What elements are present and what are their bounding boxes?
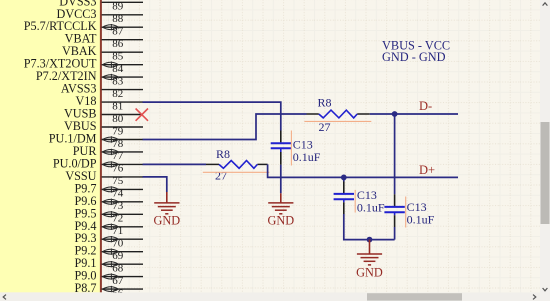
pin 85 VBAK xyxy=(62,44,143,62)
pin 73 P9.6 xyxy=(74,194,143,212)
pin 69 P9.2 xyxy=(74,244,143,262)
pin 77 PUR xyxy=(73,144,143,162)
pin 74 P9.7 xyxy=(74,181,143,199)
label C13 (left) xyxy=(293,137,321,164)
svg-text:D+: D+ xyxy=(419,163,435,177)
svg-text:86: 86 xyxy=(112,38,124,50)
svg-text:79: 79 xyxy=(112,125,124,137)
pin 83 P7.2/XT2IN xyxy=(36,69,143,87)
svg-text:88: 88 xyxy=(112,13,124,25)
svg-text:R8: R8 xyxy=(318,95,332,109)
no-ERC marker X on pin 80 VUSB xyxy=(136,109,148,121)
svg-text:GND: GND xyxy=(153,214,180,228)
svg-text:D-: D- xyxy=(419,99,432,113)
svg-text:27: 27 xyxy=(215,169,227,183)
junction node D+ xyxy=(341,175,347,181)
pin 72 P9.5 xyxy=(74,206,143,224)
svg-text:80: 80 xyxy=(112,113,124,125)
pin 70 P9.3 xyxy=(74,231,143,249)
capacitor C13 (left) plates xyxy=(271,143,291,152)
pin 76 PU.0/DP xyxy=(53,156,143,174)
pin 84 P7.3/XT2OUT xyxy=(24,57,143,75)
autoposition mark under R8 bottom xyxy=(203,171,270,173)
ground power port (VSSU) stub xyxy=(166,192,168,203)
junction node D- xyxy=(392,111,398,117)
junction node GND rail xyxy=(367,237,373,243)
IC U1 body (yellow block, right edge) xyxy=(0,0,101,292)
pin 68 P9.1 xyxy=(74,256,143,274)
vertical scrollbar xyxy=(540,0,550,301)
pin 75 VSSU xyxy=(65,169,143,187)
ground symbol GND (left) xyxy=(153,203,180,228)
svg-text:81: 81 xyxy=(112,100,123,112)
autoposition mark under R8 top xyxy=(304,120,371,122)
wire D+ junction down to C13 middle xyxy=(343,177,345,181)
pin 86 VBAT xyxy=(65,32,143,50)
pin 79 VBUS xyxy=(64,119,143,137)
net label D+ xyxy=(419,163,435,177)
pin 71 P9.4 xyxy=(74,219,143,237)
wire R8 bottom jog down to D+ row xyxy=(268,164,458,177)
wire C13 middle bottom to GND rail xyxy=(344,214,395,240)
svg-text:R8: R8 xyxy=(216,147,230,161)
pin 81 V18 xyxy=(76,94,144,112)
pin 89 DVSS3 xyxy=(59,0,143,13)
label C13 (middle) xyxy=(357,188,385,215)
capacitor C13 (right) pin 2 lead xyxy=(394,215,396,227)
horizontal scrollbar xyxy=(0,292,540,301)
resistor R8 (top, D- series) lead pins xyxy=(307,113,370,115)
svg-text:GND: GND xyxy=(356,265,383,279)
label R8 (bottom) xyxy=(215,147,230,183)
svg-text:89: 89 xyxy=(112,1,124,13)
svg-text:27: 27 xyxy=(319,120,331,134)
ground power port (C13 left) stub xyxy=(280,193,282,203)
capacitor C13 (left) pin 2 lead xyxy=(280,152,282,165)
note text VBUS - VCC xyxy=(382,39,450,53)
pin 87 P5.7/RTCCLK xyxy=(24,19,143,37)
ground symbol GND (bottom) xyxy=(356,254,383,279)
capacitor C13 (middle) pin 2 lead xyxy=(343,202,345,214)
svg-text:0.1uF: 0.1uF xyxy=(293,150,321,164)
note text GND - GND xyxy=(382,50,446,64)
net label D- xyxy=(419,99,432,113)
pin 78 PU.1/DM xyxy=(49,132,143,150)
svg-text:GND: GND xyxy=(267,214,294,228)
wire PU.1/DM pin78 up to D- row xyxy=(143,114,307,140)
resistor R8 (bottom) zigzag body xyxy=(219,161,257,169)
resistor R8 (bottom, D+ series) lead pins xyxy=(206,163,268,165)
pin 80 VUSB xyxy=(64,107,143,125)
pin 88 DVCC3 xyxy=(57,7,143,25)
wire PU.0/DP pin76 to R8 bottom xyxy=(143,163,206,165)
capacitor C13 (right) plates xyxy=(384,207,404,215)
resistor R8 (top) zigzag body xyxy=(319,110,357,118)
wire D- junction down to C13 right xyxy=(394,114,396,194)
wire V18 pin81 to C13 top xyxy=(143,102,281,130)
capacitor C13 (left, V18 decoupling) pin 1 lead xyxy=(280,131,282,143)
autoposition mark near C13 right xyxy=(405,197,407,228)
svg-text:0.1uF: 0.1uF xyxy=(357,201,385,215)
svg-text:82: 82 xyxy=(112,88,123,100)
wire C13 left bottom to GND (crosses D+ wire, no junction) xyxy=(280,165,282,194)
ground power port (caps) stub xyxy=(369,240,371,254)
capacitor C13 (middle) plates xyxy=(334,194,354,202)
ground symbol GND (middle) xyxy=(267,203,294,228)
svg-text:85: 85 xyxy=(112,51,124,63)
wire C13 right bottom to GND rail xyxy=(394,227,396,240)
pin 67 P9.0 xyxy=(74,269,143,287)
svg-text:0.1uF: 0.1uF xyxy=(407,213,435,227)
wire VSSU pin75 to GND xyxy=(143,177,167,192)
label R8 (top) xyxy=(318,95,332,134)
pin 82 AVSS3 xyxy=(61,82,143,100)
wire R8 top to D- net xyxy=(370,113,458,115)
autoposition mark near C13 middle xyxy=(354,190,356,213)
capacitor C13 (middle, on D+) pin 1 lead xyxy=(343,182,345,194)
label C13 (right) xyxy=(407,200,435,226)
svg-text:75: 75 xyxy=(112,175,124,187)
svg-text:GND - GND: GND - GND xyxy=(382,50,446,64)
capacitor C13 (right, on D-) pin 1 lead xyxy=(394,194,396,206)
pin 66 P8.7 xyxy=(74,281,143,299)
autoposition mark near C13 left xyxy=(290,131,292,166)
